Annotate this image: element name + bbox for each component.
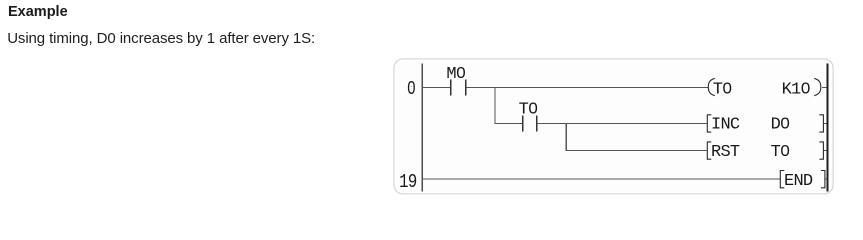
svg-text:T0: T0 [771,143,790,162]
svg-text:INC: INC [711,116,740,135]
wire RST rung segment [566,150,708,151]
INC block close bracket [819,115,823,132]
contact T0 bar2 [536,115,538,131]
wire branch down to T0 rung [494,87,495,124]
RST block open bracket [707,142,711,159]
wire T0 rung right segment to INC block [538,123,708,124]
svg-text:D0: D0 [771,116,790,135]
svg-text:END: END [784,172,813,191]
END block open bracket [780,171,784,188]
svg-text:M0: M0 [446,65,465,84]
coil close paren [814,78,821,95]
contact M0 bar1 [450,79,452,95]
svg-text:RST: RST [711,143,740,162]
left power rail [421,64,423,192]
wire branch down to RST rung [566,123,567,151]
wire INC stub to right rail [824,123,827,124]
svg-text:19: 19 [399,171,417,193]
ladder diagram panel [394,59,833,194]
contact M0 bar2 [465,79,467,95]
svg-text:K10: K10 [782,81,811,100]
wire RST stub to right rail [824,150,827,151]
wire coil stub to right rail [822,87,827,88]
wire END rung segment [422,179,780,180]
wire rung0 right segment to coil [466,87,708,88]
coil open paren [708,78,715,95]
zero glyph dot masks (emulate plain serif zero) [410,70,808,151]
right power rail [827,64,829,192]
RST block close bracket [819,142,823,159]
paragraph line [7,30,315,47]
wire END stub to right rail [825,179,826,180]
heading "Example" [8,4,68,20]
contact T0 bar1 [522,115,524,131]
svg-text:T0: T0 [713,81,732,100]
svg-text:T0: T0 [519,101,538,120]
INC block open bracket [707,115,711,132]
wire rung0 left segment [422,87,450,88]
END block close bracket [821,171,825,188]
wire T0 rung left segment [494,123,522,124]
